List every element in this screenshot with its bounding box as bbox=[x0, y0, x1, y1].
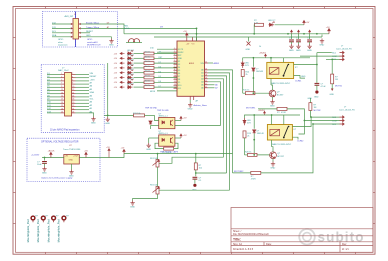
wire bbox=[311, 116, 339, 118]
resistor R6 bbox=[144, 71, 154, 74]
svg-text:KiCad E.D.A. 8.0.5: KiCad E.D.A. 8.0.5 bbox=[233, 248, 254, 251]
wire bbox=[154, 36, 322, 38]
svg-text:RESET: RESET bbox=[90, 76, 98, 78]
svg-text:+5V: +5V bbox=[114, 63, 118, 65]
resistor R19 bbox=[243, 131, 246, 138]
svg-text:1M: 1M bbox=[314, 107, 317, 109]
wire bbox=[208, 62, 213, 64]
wire bbox=[253, 78, 269, 93]
pin 22 U1 bbox=[205, 87, 209, 89]
svg-text:Rev:: Rev: bbox=[342, 243, 347, 246]
capacitor C3 body bbox=[296, 40, 301, 42]
wire bbox=[47, 90, 61, 92]
svg-text:10k: 10k bbox=[199, 168, 202, 170]
svg-text:12: 12 bbox=[174, 81, 176, 83]
pin 1 U1 bbox=[174, 48, 178, 50]
wire bbox=[208, 82, 221, 126]
wire bbox=[118, 24, 125, 34]
svg-text:LED D?: LED D? bbox=[127, 60, 134, 62]
LED D3 relay2 bbox=[243, 118, 246, 125]
svg-text:D1/TX: D1/TX bbox=[178, 49, 184, 51]
svg-text:8: 8 bbox=[174, 69, 175, 71]
wire bbox=[76, 102, 90, 104]
svg-text:A5: A5 bbox=[201, 84, 203, 87]
ground under C3 bbox=[296, 44, 300, 49]
svg-text:25: 25 bbox=[61, 112, 63, 114]
svg-text:D10: D10 bbox=[178, 85, 181, 87]
+3V3 power row 5 bbox=[120, 72, 125, 74]
wire bbox=[118, 27, 197, 29]
trimmer RV1 bbox=[153, 160, 160, 168]
+3V3 power row 1 bbox=[120, 52, 125, 54]
svg-text:150 1k: 150 1k bbox=[145, 71, 151, 73]
svg-text:GND: GND bbox=[188, 109, 193, 111]
pin 21 J2 bbox=[72, 96, 76, 98]
power +5V regulator out bbox=[85, 152, 87, 157]
LED D9 bbox=[127, 70, 133, 75]
resistor R5 bbox=[144, 67, 154, 70]
svg-text:+IN: +IN bbox=[65, 156, 69, 158]
trimmer RV2 bbox=[153, 187, 160, 195]
pin 8 J1 bbox=[79, 36, 81, 38]
pin 14 U1 bbox=[174, 87, 178, 89]
ground Q2 bbox=[271, 162, 275, 167]
svg-text:GND: GND bbox=[91, 123, 96, 125]
ground U1 bbox=[188, 103, 192, 108]
svg-text:13: 13 bbox=[174, 84, 176, 86]
wire bbox=[331, 84, 333, 89]
svg-text:J?: J? bbox=[74, 14, 77, 16]
svg-text:NAC_13x2: NAC_13x2 bbox=[58, 69, 69, 72]
wire bbox=[134, 53, 145, 55]
mounting hole H2 bbox=[41, 216, 45, 220]
svg-text:LED D?: LED D? bbox=[127, 79, 134, 81]
resistor R16 bbox=[255, 23, 264, 26]
LED D12 bbox=[127, 84, 133, 89]
wire bbox=[76, 83, 90, 85]
svg-text:13: 13 bbox=[61, 92, 63, 94]
pin 7 U1 bbox=[174, 66, 178, 68]
pin 4 J2 bbox=[61, 83, 65, 85]
wire bbox=[157, 167, 159, 187]
wire bbox=[298, 42, 300, 44]
svg-text:+5V: +5V bbox=[114, 77, 118, 79]
+3V3 power row 8 bbox=[120, 86, 125, 88]
wire bbox=[313, 123, 340, 125]
pin 7 J1 bbox=[71, 36, 73, 38]
svg-text:GND: GND bbox=[130, 207, 135, 209]
wire bbox=[134, 57, 145, 59]
wire bbox=[271, 85, 273, 90]
wire bbox=[155, 143, 164, 148]
power +5V above C3 bbox=[298, 30, 300, 34]
svg-text:SCL: SCL bbox=[90, 99, 95, 101]
svg-text:Date:: Date: bbox=[266, 243, 272, 246]
resistor R3 bbox=[144, 57, 154, 60]
svg-text:GND: GND bbox=[296, 50, 301, 52]
svg-text:R20 1k: R20 1k bbox=[245, 151, 251, 153]
svg-text:7: 7 bbox=[61, 83, 62, 85]
opto U3 led bbox=[162, 138, 164, 141]
svg-text:RV1 10k: RV1 10k bbox=[150, 158, 158, 160]
wire bbox=[208, 79, 224, 157]
wire bbox=[291, 42, 293, 44]
svg-text:5: 5 bbox=[61, 80, 62, 82]
svg-text:VIN: VIN bbox=[90, 73, 94, 75]
svg-text:GND: GND bbox=[319, 45, 324, 47]
pin 4 U1 bbox=[174, 57, 178, 59]
svg-text:MountingHole_Pad: MountingHole_Pad bbox=[36, 219, 40, 242]
svg-text:GND: GND bbox=[289, 50, 294, 52]
pin 22 J2 bbox=[72, 99, 76, 101]
LED D1 relay1 bbox=[241, 61, 244, 68]
wire bbox=[154, 57, 177, 59]
svg-text:9: 9 bbox=[174, 72, 175, 74]
svg-text:TMP IN GND: TMP IN GND bbox=[157, 110, 169, 112]
pin 4 J1 bbox=[79, 27, 81, 29]
wire bbox=[321, 35, 323, 38]
junction bbox=[253, 92, 255, 94]
svg-text:D9: D9 bbox=[178, 82, 180, 84]
wire bbox=[134, 77, 145, 79]
svg-text:19: 19 bbox=[205, 78, 207, 80]
svg-text:D4: D4 bbox=[178, 67, 180, 69]
pin 11 U1 bbox=[174, 78, 178, 80]
pin 6 J1 bbox=[79, 32, 81, 34]
pin 10 J2 bbox=[61, 102, 65, 104]
junction bbox=[195, 153, 197, 155]
svg-text:MOTOR1: MOTOR1 bbox=[246, 107, 256, 109]
svg-text:5V3: 5V3 bbox=[247, 123, 251, 125]
capacitor C4 body bbox=[307, 40, 312, 42]
resistor R8 bbox=[144, 81, 154, 84]
wire bbox=[196, 172, 227, 174]
LED D11 bbox=[127, 79, 133, 84]
svg-text:D6: D6 bbox=[159, 81, 161, 83]
resistor R20 bbox=[248, 153, 258, 156]
wire bbox=[243, 58, 246, 61]
diode D2 body bbox=[252, 68, 255, 72]
svg-text:D10: D10 bbox=[150, 48, 155, 50]
wire bbox=[252, 72, 254, 79]
svg-text:14: 14 bbox=[72, 92, 74, 94]
wire bbox=[195, 170, 197, 176]
junction bbox=[253, 139, 255, 141]
svg-text:GND: GND bbox=[308, 98, 313, 100]
svg-text:LED D?: LED D? bbox=[127, 74, 134, 76]
junction bbox=[253, 57, 255, 59]
pin 19 U1 bbox=[205, 78, 209, 80]
+3V3 power row 6 bbox=[120, 76, 125, 78]
svg-text:2k: 2k bbox=[246, 74, 248, 76]
watermark logo bbox=[299, 229, 315, 245]
power +5V mid bbox=[108, 149, 110, 158]
svg-text:A3: A3 bbox=[201, 78, 203, 81]
wire bbox=[89, 113, 94, 117]
svg-text:MOSFET/OUT: MOSFET/OUT bbox=[87, 44, 101, 46]
wire bbox=[52, 23, 71, 25]
wire bbox=[47, 96, 61, 98]
wire bbox=[134, 72, 145, 74]
pin 1 J4 bbox=[340, 116, 345, 118]
svg-text:D5: D5 bbox=[159, 76, 161, 78]
power +BULK relay2 arrow bbox=[264, 111, 266, 115]
H3 pin bbox=[53, 220, 55, 222]
pin 2 J4 bbox=[340, 119, 345, 121]
svg-text:18: 18 bbox=[205, 75, 207, 77]
wire bbox=[272, 97, 274, 100]
junction bbox=[304, 120, 306, 122]
wire bbox=[270, 58, 272, 63]
wire bbox=[76, 112, 90, 114]
junction bbox=[331, 59, 333, 61]
pin 12 J2 bbox=[61, 109, 65, 111]
pin 23 J2 bbox=[72, 102, 76, 104]
relay K2 contact bbox=[283, 126, 290, 139]
svg-text:10uF: 10uF bbox=[37, 164, 42, 166]
svg-text:SANYOU SRD-5VDC: SANYOU SRD-5VDC bbox=[271, 82, 291, 85]
relay K1 contact bbox=[283, 64, 290, 77]
svg-text:22: 22 bbox=[72, 105, 74, 107]
wire bbox=[208, 73, 230, 190]
wire bbox=[243, 92, 246, 94]
power +BULK relay1 arrow bbox=[265, 54, 267, 58]
svg-text:3: 3 bbox=[61, 76, 62, 78]
svg-text:Arduino_Nano: Arduino_Nano bbox=[194, 104, 208, 107]
svg-text:17: 17 bbox=[61, 99, 63, 101]
wire bbox=[174, 143, 178, 148]
wire bbox=[245, 154, 248, 156]
wire bbox=[52, 27, 71, 29]
pin 2 J2 bbox=[61, 77, 65, 79]
svg-text:A1: A1 bbox=[201, 72, 203, 75]
wire bbox=[134, 62, 145, 64]
wire bbox=[47, 80, 61, 82]
resistor R15 bbox=[245, 92, 255, 95]
pin 20 J2 bbox=[72, 93, 76, 95]
LED D6 bbox=[127, 55, 133, 60]
svg-text:470R: 470R bbox=[281, 112, 286, 114]
ground left column bbox=[106, 117, 110, 122]
diode D17 crossed bbox=[247, 42, 251, 46]
wire bbox=[149, 137, 159, 139]
ground rail right bbox=[320, 39, 324, 44]
svg-text:11: 11 bbox=[61, 89, 63, 91]
svg-text:GND: GND bbox=[146, 149, 151, 151]
power +5V U1 bbox=[186, 33, 188, 37]
svg-text:A4: A4 bbox=[90, 94, 93, 97]
wire bbox=[309, 42, 311, 44]
wire bbox=[47, 74, 61, 76]
svg-text:6: 6 bbox=[72, 80, 73, 82]
svg-text:D0/RX: D0/RX bbox=[178, 52, 184, 54]
svg-text:Conn_01x03_Pin: Conn_01x03_Pin bbox=[339, 109, 356, 111]
power +5V above C2 bbox=[291, 30, 293, 34]
svg-text:J?: J? bbox=[344, 106, 347, 108]
svg-text:A1: A1 bbox=[90, 107, 93, 110]
pin 7 J2 bbox=[61, 93, 65, 95]
svg-text:11: 11 bbox=[174, 78, 176, 80]
svg-text:+5V: +5V bbox=[106, 147, 110, 149]
junction bbox=[196, 33, 198, 35]
wire bbox=[150, 126, 152, 130]
wire bbox=[76, 74, 90, 76]
pin 9 J2 bbox=[61, 99, 65, 101]
svg-text:Size: A4: Size: A4 bbox=[233, 243, 242, 246]
wire bbox=[154, 72, 177, 74]
power flag PWR bbox=[303, 20, 305, 24]
svg-text:C?: C? bbox=[307, 37, 310, 39]
opto U3 transistor bbox=[171, 137, 173, 143]
svg-text:GND: GND bbox=[109, 45, 114, 47]
svg-text:D2: D2 bbox=[178, 61, 180, 63]
pin 17 U1 bbox=[205, 72, 209, 74]
power +5V opto1 bbox=[175, 116, 182, 120]
svg-text:K?: K? bbox=[294, 129, 297, 131]
pin top U1 bbox=[196, 37, 198, 41]
wire bbox=[159, 189, 230, 191]
graphic box GPIO expansion right bbox=[76, 12, 118, 48]
wire bbox=[208, 87, 215, 89]
svg-text:H?: H? bbox=[46, 216, 50, 218]
svg-text:D2: D2 bbox=[159, 62, 161, 64]
svg-text:2: 2 bbox=[174, 51, 175, 53]
pin 2 J3 bbox=[340, 55, 345, 57]
mounting hole H1 bbox=[31, 216, 35, 220]
svg-text:+5V: +5V bbox=[183, 118, 187, 120]
svg-text:Q?: Q? bbox=[277, 153, 281, 155]
pin 9 U1 bbox=[174, 72, 178, 74]
wire bbox=[189, 100, 191, 103]
pin top U1 bbox=[192, 37, 194, 41]
svg-text:Enable_Wkup: Enable_Wkup bbox=[86, 22, 100, 24]
svg-text:+5V: +5V bbox=[183, 135, 187, 137]
svg-text:other: other bbox=[58, 41, 63, 44]
junction bbox=[316, 64, 318, 66]
pin 21 U1 bbox=[205, 84, 209, 86]
junction bbox=[312, 123, 314, 125]
wire bbox=[154, 86, 177, 88]
ground opto bbox=[147, 143, 151, 148]
svg-text:+5V: +5V bbox=[306, 22, 310, 24]
wire bbox=[258, 108, 277, 110]
svg-text:+BULK: +BULK bbox=[48, 151, 56, 153]
resistor R17 bbox=[277, 107, 287, 110]
capacitor C6 bbox=[315, 83, 320, 85]
ground C6 bbox=[315, 90, 318, 93]
svg-text:A2: A2 bbox=[90, 104, 93, 107]
wire bbox=[287, 109, 304, 121]
svg-text:23: 23 bbox=[61, 108, 63, 110]
svg-text:2k: 2k bbox=[247, 136, 249, 138]
wire bbox=[47, 93, 61, 95]
power +BULK bbox=[50, 152, 52, 157]
wire bbox=[52, 36, 71, 38]
svg-text:U?: U? bbox=[69, 145, 73, 147]
wire bbox=[76, 80, 90, 82]
wire bbox=[254, 140, 269, 155]
wire bbox=[244, 138, 246, 155]
wire bbox=[44, 158, 46, 161]
svg-text:12: 12 bbox=[72, 89, 74, 91]
svg-text:D3: D3 bbox=[159, 67, 161, 69]
wire bbox=[246, 57, 310, 59]
op-amp U1 Arduino Nano body bbox=[177, 41, 205, 96]
pin 19 J2 bbox=[72, 90, 76, 92]
svg-text:Conn_01x03_Pin: Conn_01x03_Pin bbox=[336, 49, 353, 51]
wire bbox=[47, 106, 61, 108]
note GPIO switched bbox=[87, 39, 101, 46]
wire bbox=[331, 59, 333, 74]
pin 25 J2 bbox=[72, 109, 76, 111]
junction bbox=[253, 33, 255, 35]
wire bbox=[76, 90, 90, 92]
pin 1 J1 bbox=[71, 23, 73, 25]
wire bbox=[317, 52, 332, 54]
ground C7 bbox=[193, 184, 196, 187]
relay K2 bbox=[267, 125, 292, 141]
pin 3 J3 bbox=[340, 58, 345, 60]
svg-text:OPTIONAL VOLTAGE REGULATOR: OPTIONAL VOLTAGE REGULATOR bbox=[41, 141, 79, 144]
wire bbox=[309, 110, 312, 117]
svg-text:150 1k: 150 1k bbox=[145, 61, 151, 63]
svg-text:+5V: +5V bbox=[114, 53, 118, 55]
svg-text:A6: A6 bbox=[201, 87, 203, 90]
pin 17 J2 bbox=[72, 83, 76, 85]
wire bbox=[154, 62, 177, 64]
wire bbox=[316, 65, 318, 83]
wire bbox=[76, 106, 90, 108]
svg-text:GND: GND bbox=[270, 106, 275, 108]
svg-text:A7: A7 bbox=[215, 87, 218, 90]
junction bbox=[157, 153, 159, 155]
svg-text:4x10k: 4x10k bbox=[124, 28, 131, 30]
svg-text:D9: D9 bbox=[160, 26, 164, 28]
svg-text:GND: GND bbox=[178, 58, 183, 60]
U1 top pin names bbox=[186, 43, 195, 45]
mounting hole H4 bbox=[62, 216, 66, 220]
pin top U1 bbox=[186, 37, 188, 41]
ground tmp bbox=[130, 201, 134, 206]
svg-text:+5V: +5V bbox=[114, 82, 118, 84]
wire bbox=[134, 81, 145, 83]
svg-text:AREF: AREF bbox=[189, 62, 195, 65]
svg-text:R15 1k: R15 1k bbox=[243, 90, 249, 92]
resistor R9 bbox=[144, 86, 154, 89]
wire bbox=[271, 140, 273, 147]
svg-text:MOSI: MOSI bbox=[150, 91, 156, 93]
svg-text:22: 22 bbox=[205, 87, 207, 89]
svg-text:1: 1 bbox=[61, 73, 62, 75]
svg-text:J?: J? bbox=[341, 46, 344, 48]
svg-text:SDA: SDA bbox=[90, 91, 95, 94]
pin 10 U1 bbox=[174, 75, 178, 77]
pin 13 U1 bbox=[174, 84, 178, 86]
wire bbox=[309, 98, 311, 103]
wire bbox=[151, 125, 159, 127]
LED D10 bbox=[127, 74, 133, 79]
pin bottom U1 bbox=[189, 96, 191, 100]
+3V3 power row 4 bbox=[120, 67, 125, 69]
svg-text:A6: A6 bbox=[90, 85, 93, 88]
wire bbox=[76, 86, 90, 88]
pin 20 U1 bbox=[205, 81, 209, 83]
svg-text:15: 15 bbox=[205, 62, 207, 64]
wire bbox=[107, 63, 109, 115]
svg-text:MountingHole_Pad: MountingHole_Pad bbox=[57, 219, 61, 242]
opto U2 bbox=[159, 117, 175, 128]
svg-text:H?: H? bbox=[66, 216, 70, 218]
